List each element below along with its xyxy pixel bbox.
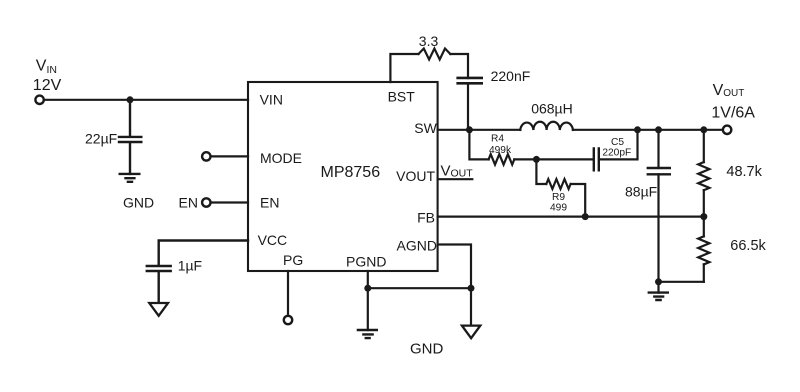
svg-text:66.5k: 66.5k (730, 238, 766, 254)
svg-text:VOUT: VOUT (441, 162, 474, 179)
svg-text:3.3: 3.3 (419, 33, 439, 49)
svg-text:MP8756: MP8756 (321, 164, 381, 181)
svg-text:220pF: 220pF (602, 148, 631, 159)
svg-text:PGND: PGND (346, 254, 386, 270)
svg-text:GND: GND (410, 341, 444, 358)
svg-text:22µF: 22µF (85, 131, 117, 147)
svg-text:1V/6A: 1V/6A (711, 105, 755, 122)
svg-text:VCC: VCC (258, 232, 288, 248)
svg-text:MODE: MODE (260, 150, 302, 166)
svg-text:220nF: 220nF (491, 68, 531, 84)
svg-text:FB: FB (417, 210, 435, 226)
svg-text:48.7k: 48.7k (726, 164, 762, 180)
svg-text:12V: 12V (33, 77, 62, 94)
svg-text:499: 499 (550, 203, 567, 214)
svg-text:R9: R9 (552, 192, 565, 203)
svg-text:AGND: AGND (397, 238, 437, 254)
svg-text:R4: R4 (491, 134, 504, 145)
svg-text:VIN: VIN (260, 92, 283, 108)
svg-text:VOUT: VOUT (396, 168, 435, 184)
svg-text:EN: EN (179, 195, 198, 211)
svg-text:88µF: 88µF (625, 184, 657, 200)
svg-text:1µF: 1µF (178, 258, 202, 274)
svg-text:GND: GND (123, 195, 154, 211)
svg-text:068µH: 068µH (531, 101, 573, 117)
svg-text:PG: PG (283, 252, 303, 268)
svg-text:C5: C5 (611, 137, 624, 148)
svg-text:499k: 499k (489, 145, 512, 156)
svg-text:SW: SW (414, 120, 437, 136)
svg-text:EN: EN (260, 195, 279, 211)
svg-text:BST: BST (388, 89, 416, 105)
svg-text:VOUT: VOUT (713, 82, 745, 99)
svg-text:VIN: VIN (36, 58, 57, 76)
